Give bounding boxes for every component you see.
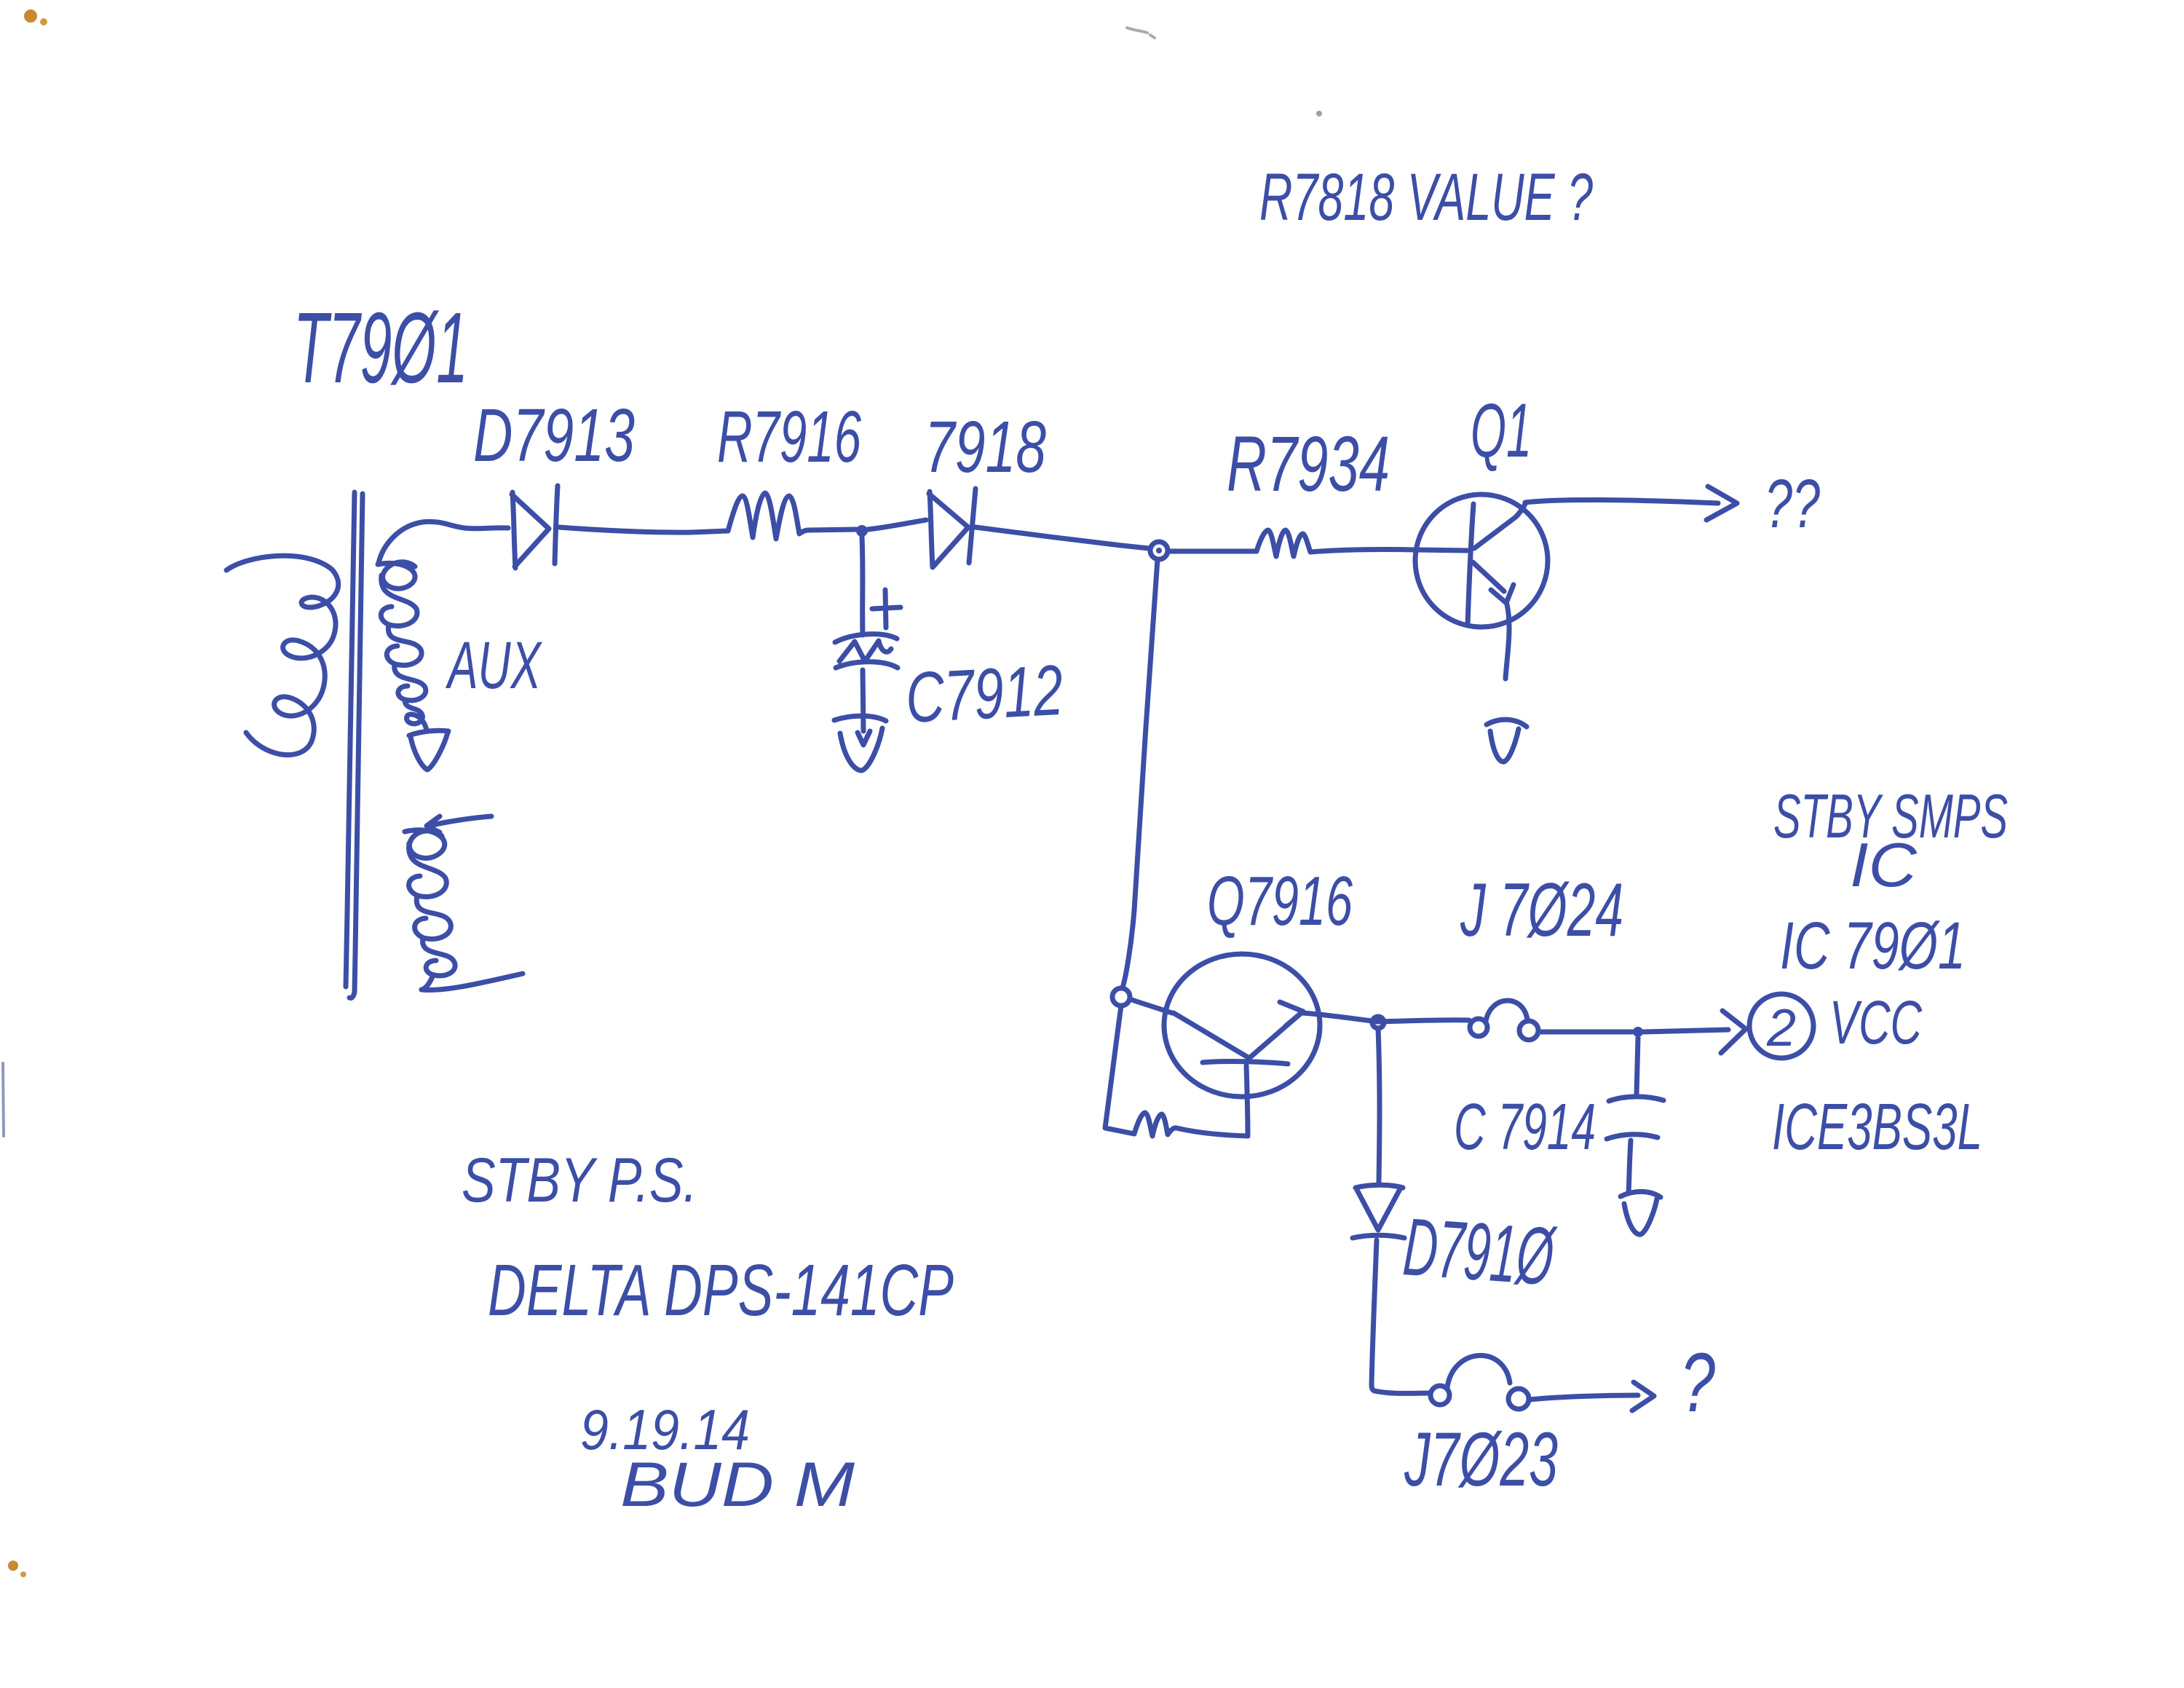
scan artifact: left edge mark	[3, 1063, 4, 1136]
resistor R7916	[728, 493, 808, 539]
scan artifact: orange specks top-left	[24, 9, 37, 23]
scan artifact: orange specks left-middle	[8, 1561, 18, 1571]
Q7916 collector wire to J7924	[1302, 1013, 1469, 1022]
svg-text:R7818 VALUE ?: R7818 VALUE ?	[1259, 160, 1593, 234]
diode D7910	[1356, 1185, 1403, 1188]
transformer T7901 AUX winding	[378, 562, 427, 730]
svg-text:IC 79Ø1: IC 79Ø1	[1780, 909, 1966, 983]
transformer T7901 primary winding	[226, 556, 339, 754]
capacitor C7914	[1609, 1097, 1663, 1101]
svg-text:Q1: Q1	[1471, 388, 1532, 473]
capacitor C7912 plates	[835, 634, 897, 642]
wire node A down to node B	[1123, 559, 1158, 987]
wire R7916 to junction	[808, 529, 858, 530]
transistor Q1	[1415, 494, 1548, 627]
transformer T7901 lower winding top lead with arrow	[432, 816, 491, 825]
svg-text:J7Ø23: J7Ø23	[1404, 1417, 1558, 1502]
svg-text:DELTA DPS-141CP: DELTA DPS-141CP	[488, 1250, 954, 1331]
svg-text:??: ??	[1765, 465, 1820, 543]
svg-text:C 7914: C 7914	[1454, 1091, 1596, 1164]
wire node B to Q7916	[1130, 999, 1172, 1013]
transformer T7901 lower winding bottom lead	[422, 974, 523, 990]
svg-text:D7913: D7913	[473, 393, 635, 477]
Q7916 base loop with squiggle	[1105, 1006, 1134, 1134]
svg-text:D791Ø: D791Ø	[1401, 1201, 1559, 1302]
diode D7913	[512, 492, 549, 568]
svg-text:VCC: VCC	[1829, 988, 1923, 1057]
C7912 plus sign	[872, 590, 901, 628]
svg-text:AUX: AUX	[446, 628, 543, 703]
wire D7913 to R7916	[559, 527, 728, 532]
wire R7934 to Q1 base	[1310, 549, 1468, 552]
diode 7918	[929, 492, 968, 567]
Q1 ground	[1487, 719, 1527, 727]
C7912 lower stem	[863, 670, 863, 731]
circled pin 2	[1749, 994, 1813, 1058]
svg-text:Q7916: Q7916	[1207, 862, 1353, 940]
wire junction to diode 7918	[868, 520, 926, 529]
svg-text:R7934: R7934	[1227, 419, 1390, 508]
junction node (C7912 tap)	[856, 525, 868, 537]
svg-text:7918: 7918	[925, 406, 1046, 488]
svg-text:STBY P.S.: STBY P.S.	[462, 1145, 697, 1215]
wire junction down to C7912	[862, 537, 863, 635]
node B circle	[1112, 988, 1130, 1006]
wire junction down to C7914	[1637, 1038, 1638, 1094]
wire Q7916 collector junction down to D7910	[1378, 1028, 1380, 1183]
wire junction to VCC arrow	[1643, 1030, 1728, 1032]
Q1 collector wire and arrow to ??	[1525, 500, 1718, 503]
svg-text:R7916: R7916	[717, 396, 861, 478]
svg-text:T79Ø1: T79Ø1	[293, 292, 468, 404]
wire node A to R7934	[1168, 549, 1257, 554]
C7914 ground	[1621, 1191, 1661, 1197]
junction loop at D7910 branch	[1372, 1017, 1384, 1028]
svg-text:2: 2	[1766, 999, 1796, 1057]
svg-text:C7912: C7912	[903, 650, 1064, 738]
AUX winding down-arrow	[409, 730, 448, 770]
transistor Q7916	[1164, 954, 1320, 1097]
wire D7910 down to J7923	[1372, 1240, 1377, 1391]
transformer T7901 lower winding coil	[405, 830, 455, 990]
wire from transformer to D7913	[460, 527, 508, 529]
C7912 ground	[834, 716, 886, 721]
jumper J7923	[1431, 1386, 1449, 1405]
svg-text:?: ?	[1680, 1336, 1715, 1429]
scan artifact: faint pencil mark top-center	[1127, 28, 1155, 38]
svg-text:BUD M: BUD M	[620, 1450, 855, 1520]
resistor R7934	[1257, 530, 1310, 556]
transformer T7901 core	[346, 492, 363, 998]
wire 7918 to node A	[976, 527, 1149, 548]
svg-text:IC: IC	[1850, 831, 1918, 900]
jumper J7924	[1470, 1019, 1487, 1036]
AUX winding top lead to wire	[379, 521, 460, 563]
svg-text:J 7Ø24: J 7Ø24	[1460, 868, 1623, 953]
node A circle	[1150, 542, 1168, 559]
junction above C7914	[1633, 1027, 1643, 1037]
svg-text:ICE3BS3L: ICE3BS3L	[1772, 1091, 1982, 1164]
